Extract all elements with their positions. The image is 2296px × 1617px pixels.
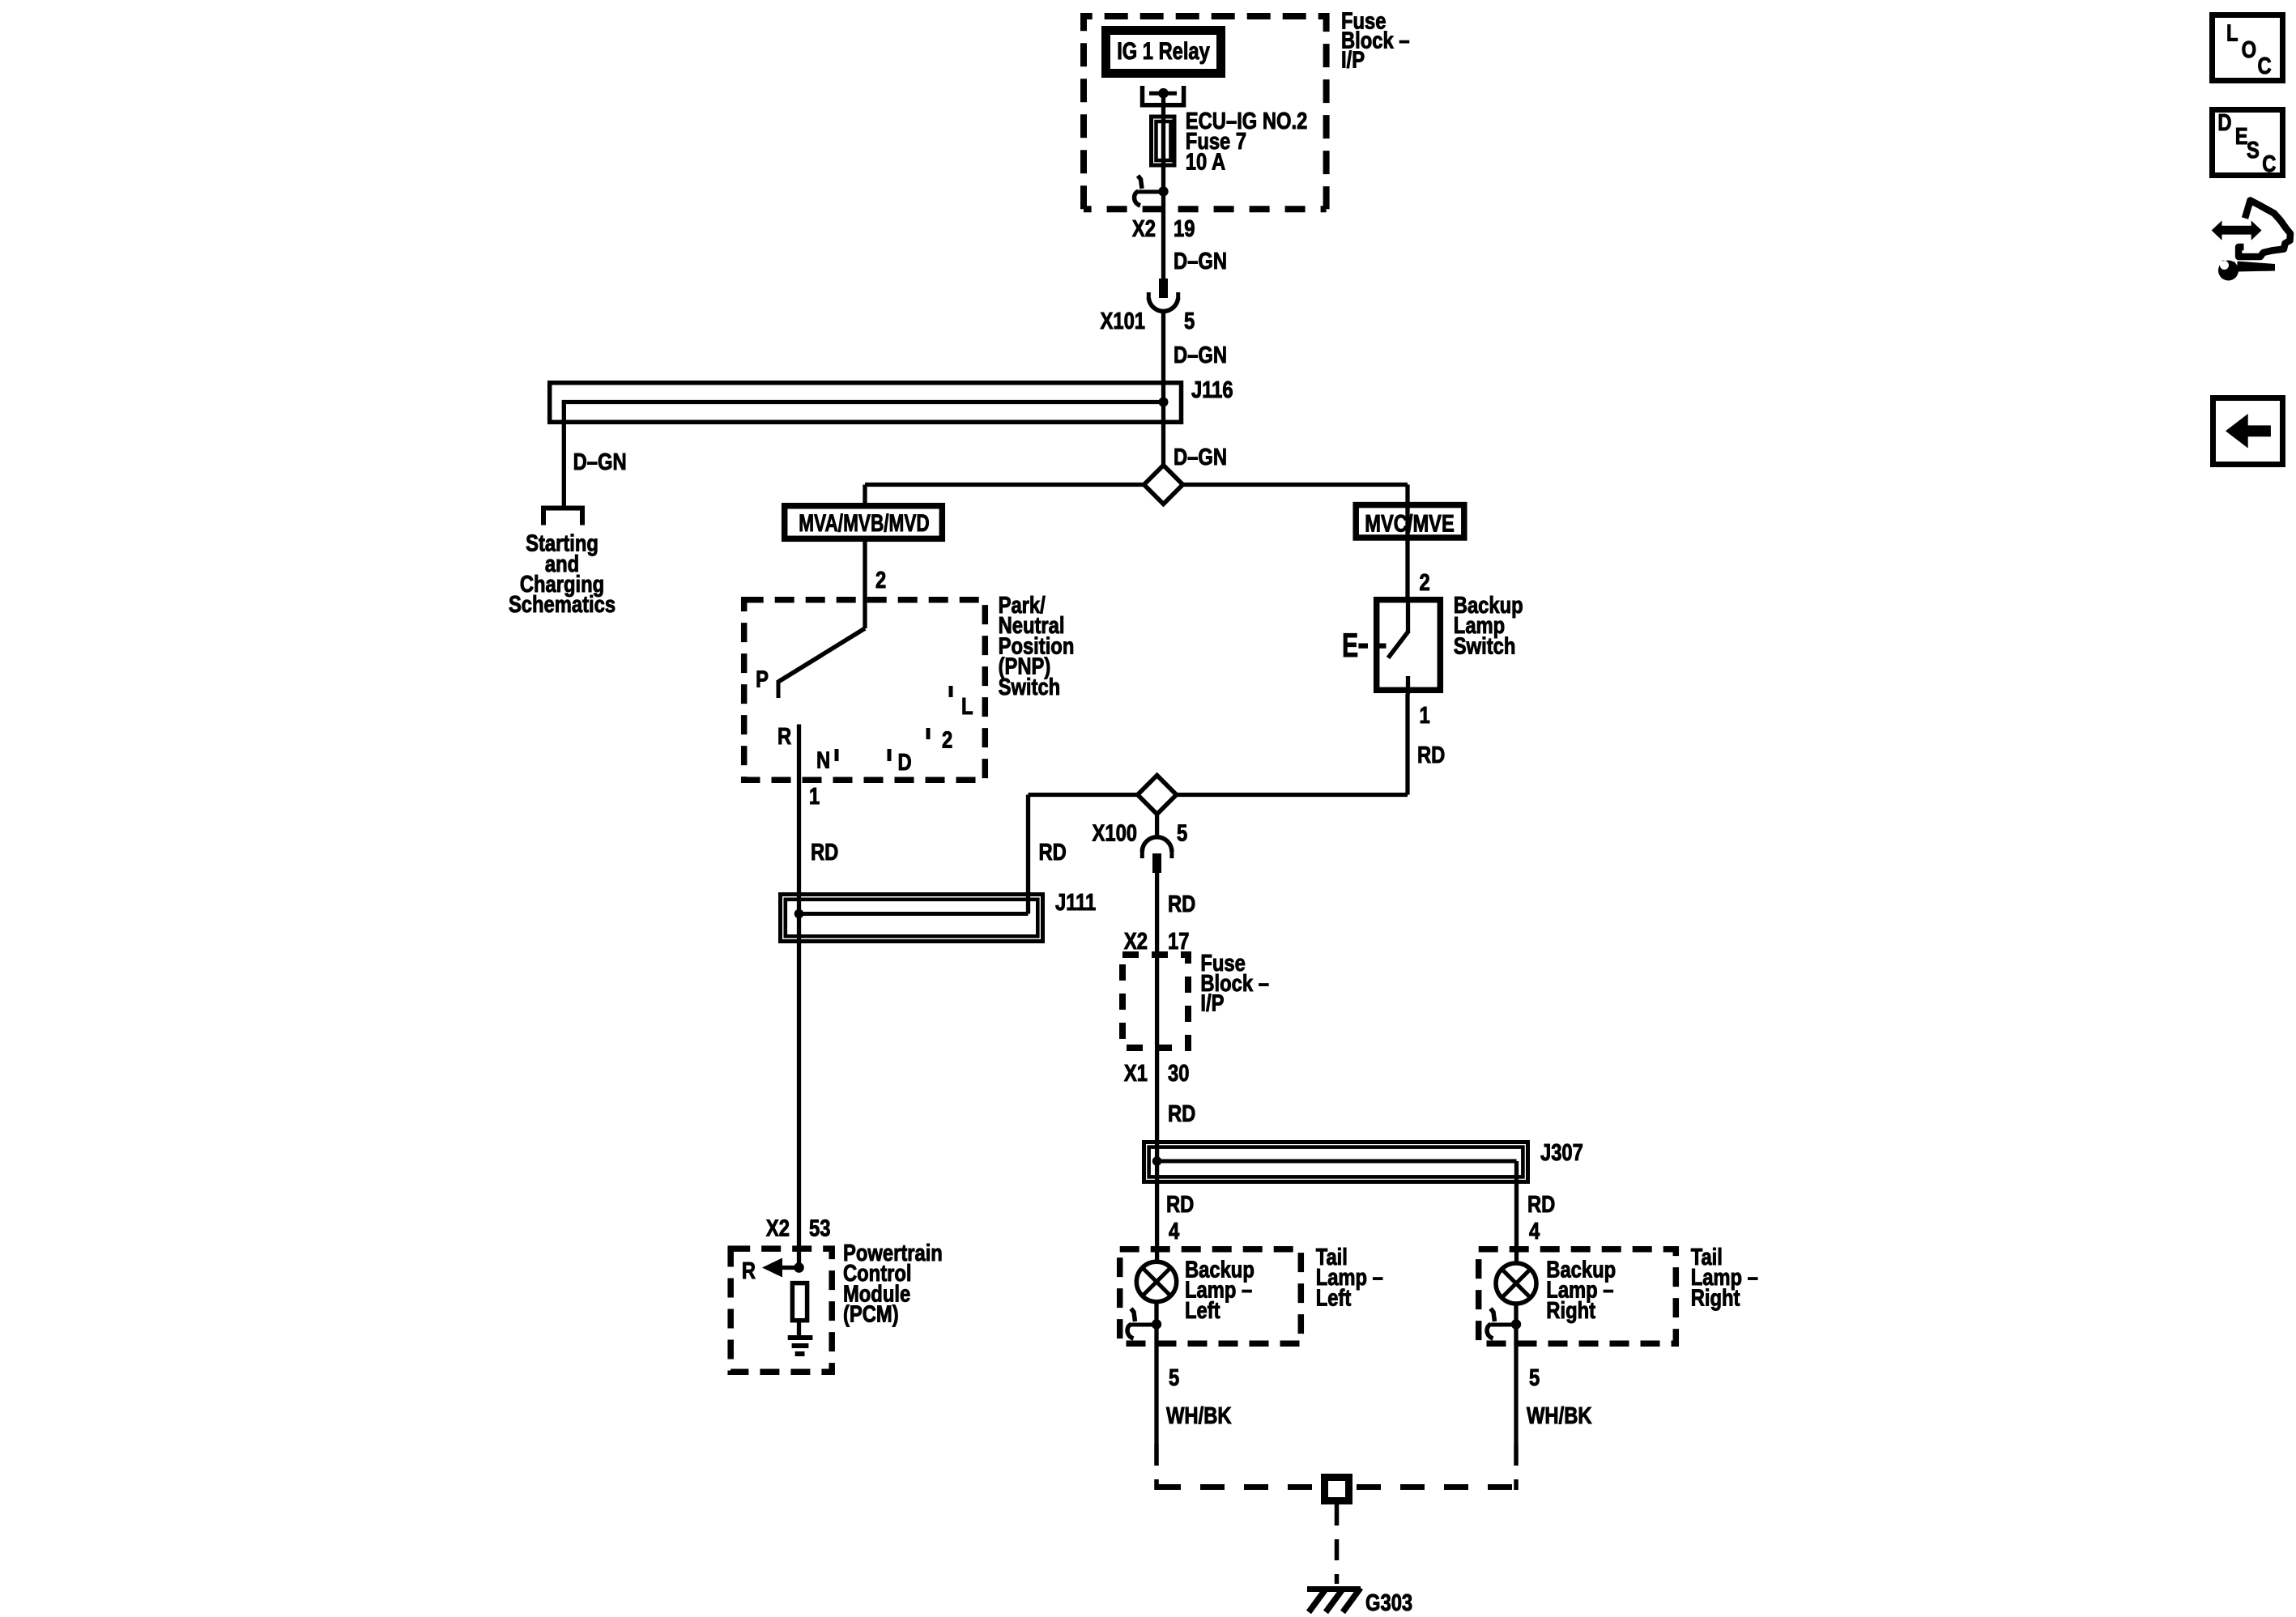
off-page bracket to Starting and Charging bbox=[541, 506, 585, 526]
ground splice node box bbox=[1325, 1478, 1349, 1501]
wire J307 right branch to right lamp bbox=[1514, 1161, 1519, 1264]
tail lamp left dashed box bbox=[1120, 1249, 1301, 1344]
wire X100 left branch to J111 bbox=[1026, 795, 1030, 914]
svg-text:N: N bbox=[816, 747, 830, 773]
PNP switch arm bbox=[778, 628, 865, 682]
svg-text:Right: Right bbox=[1691, 1284, 1740, 1311]
svg-text:RD: RD bbox=[811, 839, 838, 866]
fuse block I/P dashed box (top) bbox=[1084, 16, 1327, 209]
connector X100 symbol bbox=[1142, 837, 1172, 873]
fuse block I/P dashed box (middle) bbox=[1122, 955, 1188, 1048]
svg-text:RD: RD bbox=[1039, 839, 1067, 866]
dashed ground wires to G303 bbox=[1157, 1445, 1516, 1490]
svg-text:2: 2 bbox=[875, 567, 886, 594]
backup lamp left bulb bbox=[1136, 1262, 1176, 1301]
svg-text:19: 19 bbox=[1174, 215, 1195, 242]
svg-text:X2: X2 bbox=[766, 1215, 790, 1241]
svg-text:D–GN: D–GN bbox=[1174, 248, 1227, 274]
PNP switch dashed box bbox=[744, 600, 986, 781]
svg-text:L: L bbox=[961, 693, 973, 720]
svg-text:R: R bbox=[742, 1257, 756, 1284]
svg-text:D–GN: D–GN bbox=[1174, 342, 1227, 368]
svg-text:MVA/MVB/MVD: MVA/MVB/MVD bbox=[799, 509, 929, 537]
connector box MVA/MVB/MVD bbox=[785, 506, 943, 539]
svg-text:4: 4 bbox=[1169, 1218, 1179, 1245]
junction dot relay terminal bbox=[1158, 88, 1169, 99]
svg-text:1: 1 bbox=[1420, 702, 1430, 729]
svg-text:WH/BK: WH/BK bbox=[1527, 1402, 1592, 1429]
svg-text:C: C bbox=[2258, 53, 2272, 79]
svg-text:X101: X101 bbox=[1101, 308, 1145, 334]
svg-text:2: 2 bbox=[1420, 569, 1430, 596]
icon box DESC bbox=[2213, 109, 2283, 177]
svg-text:Switch: Switch bbox=[999, 674, 1061, 700]
tick N bbox=[835, 749, 839, 761]
svg-text:L: L bbox=[2226, 19, 2238, 46]
tail lamp right dashed box bbox=[1479, 1249, 1676, 1344]
R arrow bbox=[762, 1258, 804, 1278]
svg-text:(PCM): (PCM) bbox=[843, 1300, 899, 1327]
wire relay to fuse to X2-19 bbox=[1161, 93, 1165, 280]
connector X101 symbol bbox=[1148, 279, 1178, 311]
svg-text:RD: RD bbox=[1417, 742, 1445, 768]
svg-text:J116: J116 bbox=[1191, 377, 1233, 403]
wire MVA pin 2 to PNP switch bbox=[863, 542, 867, 628]
svg-text:Switch: Switch bbox=[1454, 632, 1516, 659]
svg-text:30: 30 bbox=[1168, 1060, 1189, 1087]
backup lamp right bulb bbox=[1496, 1263, 1536, 1304]
svg-text:Left: Left bbox=[1185, 1297, 1220, 1324]
tick L bbox=[949, 686, 953, 697]
svg-text:X2: X2 bbox=[1132, 215, 1156, 242]
svg-text:O: O bbox=[2242, 36, 2256, 63]
fuse block exit connector symbol X2-19 bbox=[1135, 176, 1169, 206]
wire X100 to J307 bbox=[1155, 873, 1159, 1263]
switch internals bbox=[1388, 599, 1409, 694]
wire X101 to J116 bbox=[1161, 313, 1165, 466]
svg-text:Schematics: Schematics bbox=[509, 591, 616, 618]
svg-text:RD: RD bbox=[1527, 1191, 1555, 1218]
svg-text:D: D bbox=[898, 749, 912, 776]
svg-text:2: 2 bbox=[942, 726, 952, 753]
svg-text:5: 5 bbox=[1529, 1364, 1540, 1391]
wire PNP pin 1 to PCM (through J111) bbox=[797, 725, 801, 1269]
svg-text:G303: G303 bbox=[1365, 1589, 1412, 1616]
wire MVC to backup lamp switch bbox=[1405, 485, 1409, 600]
svg-text:Left: Left bbox=[1316, 1284, 1352, 1311]
svg-text:P: P bbox=[756, 666, 769, 692]
backup lamp switch box bbox=[1377, 600, 1441, 691]
icon box back arrow bbox=[2213, 398, 2283, 465]
svg-text:RD: RD bbox=[1166, 1191, 1194, 1218]
relay K: IG 1 Relay box bbox=[1106, 31, 1221, 74]
ground (PCM internal) bbox=[788, 1338, 813, 1354]
svg-text:I/P: I/P bbox=[1341, 46, 1365, 73]
svg-text:5: 5 bbox=[1169, 1364, 1179, 1391]
svg-text:S: S bbox=[2247, 137, 2260, 164]
PCM dashed box bbox=[731, 1249, 832, 1372]
svg-text:D: D bbox=[2217, 109, 2231, 136]
connector box MVC/MVE bbox=[1356, 505, 1464, 538]
svg-text:D–GN: D–GN bbox=[1174, 444, 1227, 470]
svg-text:5: 5 bbox=[1177, 819, 1187, 846]
svg-text:J111: J111 bbox=[1055, 889, 1096, 916]
wire main horizontal distribution bbox=[865, 483, 1408, 487]
svg-text:17: 17 bbox=[1168, 928, 1189, 955]
splice bus J307 bbox=[1144, 1143, 1528, 1182]
wire diamond to X100 bbox=[1155, 815, 1159, 840]
svg-text:R: R bbox=[777, 723, 791, 750]
fuse F7 ECU-IG NO.2 10A bbox=[1152, 117, 1175, 165]
svg-text:E: E bbox=[2235, 123, 2248, 150]
tick 2 bbox=[926, 728, 931, 739]
svg-text:1: 1 bbox=[809, 783, 820, 810]
svg-text:E: E bbox=[1342, 626, 1358, 664]
relay output terminal bracket bbox=[1143, 86, 1184, 105]
wire below right bulb bbox=[1514, 1304, 1518, 1445]
svg-text:C: C bbox=[2262, 151, 2276, 177]
svg-text:J307: J307 bbox=[1540, 1139, 1583, 1166]
wire below left bulb bbox=[1154, 1302, 1158, 1445]
icon box LOC bbox=[2213, 15, 2283, 81]
svg-text:53: 53 bbox=[809, 1215, 830, 1241]
splice bus J116 bbox=[550, 383, 1182, 507]
right lamp ground-side connector bbox=[1487, 1308, 1521, 1338]
svg-text:RD: RD bbox=[1168, 1100, 1195, 1127]
splice diamond (D-GN) bbox=[1144, 466, 1183, 504]
wire to MVA connector bbox=[863, 485, 867, 504]
wire switch pin 1 to X100 bbox=[1405, 694, 1409, 795]
svg-text:5: 5 bbox=[1184, 308, 1195, 334]
svg-text:RD: RD bbox=[1168, 891, 1195, 917]
svg-text:Right: Right bbox=[1546, 1297, 1595, 1324]
svg-text:WH/BK: WH/BK bbox=[1166, 1402, 1232, 1429]
svg-text:D–GN: D–GN bbox=[573, 449, 627, 475]
svg-text:4: 4 bbox=[1529, 1218, 1540, 1245]
splice bus J111 bbox=[781, 895, 1043, 942]
svg-text:IG 1 Relay: IG 1 Relay bbox=[1117, 37, 1210, 64]
tick D bbox=[888, 749, 892, 761]
ground G303 bbox=[1307, 1588, 1361, 1612]
wire X100 horizontal bbox=[1029, 793, 1408, 797]
left lamp ground-side connector bbox=[1127, 1308, 1161, 1338]
svg-text:X100: X100 bbox=[1093, 819, 1137, 846]
splice diamond (RD) bbox=[1138, 776, 1177, 815]
icon hand with wrench (repair info) bbox=[2212, 201, 2290, 281]
svg-text:X2: X2 bbox=[1124, 928, 1148, 955]
svg-text:10 A: 10 A bbox=[1186, 148, 1225, 175]
svg-text:X1: X1 bbox=[1124, 1060, 1148, 1087]
resistor (PCM pull-up) bbox=[792, 1283, 807, 1321]
svg-text:I/P: I/P bbox=[1200, 989, 1224, 1016]
